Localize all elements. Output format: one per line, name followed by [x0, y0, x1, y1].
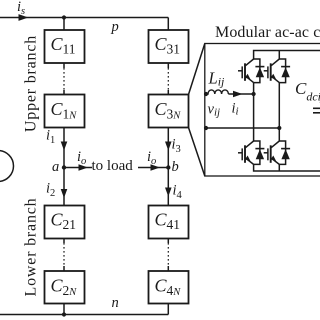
cell C1N — [45, 95, 85, 128]
cell C21 — [45, 206, 85, 239]
svg-text:n: n — [112, 295, 119, 311]
wire C11 top stub — [63, 18, 65, 31]
svg-text:to load: to load — [92, 158, 134, 174]
wire right leg upper-mid — [278, 83, 280, 128]
terminal in bottom — [204, 126, 208, 130]
svg-text:p: p — [111, 19, 119, 35]
arrow i4 — [165, 188, 172, 197]
svg-text:Lower branch: Lower branch — [23, 198, 40, 297]
arrow i1 — [61, 142, 68, 151]
wire C31 top drop — [167, 18, 169, 31]
wire node b to C41 — [167, 168, 169, 206]
wire C3N to node b — [167, 128, 169, 168]
wire dotted C11-C1N — [63, 63, 65, 95]
cell C31 — [149, 30, 189, 63]
terminal in top — [204, 92, 208, 96]
svg-text:b: b — [172, 159, 179, 175]
wire C1N to node a — [63, 128, 65, 168]
wire node a to C21 — [63, 168, 65, 206]
svg-text:Modular ac-ac converter cell: Modular ac-ac converter cell — [215, 24, 320, 41]
node junction bottom — [62, 312, 66, 316]
wire dc bus bottom — [254, 164, 320, 171]
svg-text:Upper branch: Upper branch — [23, 35, 40, 132]
igbt Q2 top-right — [264, 59, 290, 83]
wire C4N bottom drop — [167, 304, 169, 315]
wire right leg bottom — [278, 164, 280, 171]
node left leg mid — [252, 92, 256, 96]
arrow i3 — [165, 142, 172, 151]
wire left leg upper-mid — [253, 83, 255, 94]
cell detail box — [205, 44, 320, 177]
wire dc bus top — [254, 51, 320, 60]
wire dotted C31-C3N — [167, 63, 169, 95]
wire load right — [138, 167, 168, 169]
cell C41 — [149, 206, 189, 239]
wire C2N bottom stub — [63, 304, 65, 315]
wire dotted C21-C2N — [63, 239, 65, 272]
igbt Q1 top-left — [238, 59, 264, 83]
arrow ii — [233, 91, 243, 98]
wire inductor to left leg — [228, 93, 253, 95]
arrow is — [19, 14, 29, 21]
wire left leg mid-lower — [253, 94, 255, 141]
inductor Lij — [206, 90, 228, 94]
cell C4N — [149, 271, 189, 304]
cell C3N — [149, 95, 189, 128]
igbt Q3 bottom-left — [238, 141, 264, 164]
callout line upper — [189, 44, 205, 95]
node a — [62, 165, 66, 169]
arrow io right — [151, 164, 161, 171]
arrow io left — [79, 164, 89, 171]
cell C2N — [45, 271, 85, 304]
wire return to right leg — [206, 127, 279, 129]
capacitor Cdcij plates — [313, 51, 320, 172]
wire bottom bus n — [0, 314, 168, 316]
arrow i2 — [61, 189, 68, 198]
cell C11 — [45, 30, 85, 63]
svg-text:a: a — [52, 159, 59, 175]
ac source — [0, 151, 14, 182]
igbt Q4 bottom-right — [264, 141, 290, 164]
node junction top — [62, 15, 66, 19]
wire load left — [64, 167, 92, 169]
wire top bus p — [0, 17, 168, 19]
wire right leg mid-lower — [278, 128, 280, 141]
wire dotted C41-C4N — [167, 239, 169, 272]
callout line lower — [189, 128, 205, 177]
wire right leg top — [278, 51, 280, 60]
node right leg mid — [277, 126, 281, 130]
node b — [166, 165, 170, 169]
